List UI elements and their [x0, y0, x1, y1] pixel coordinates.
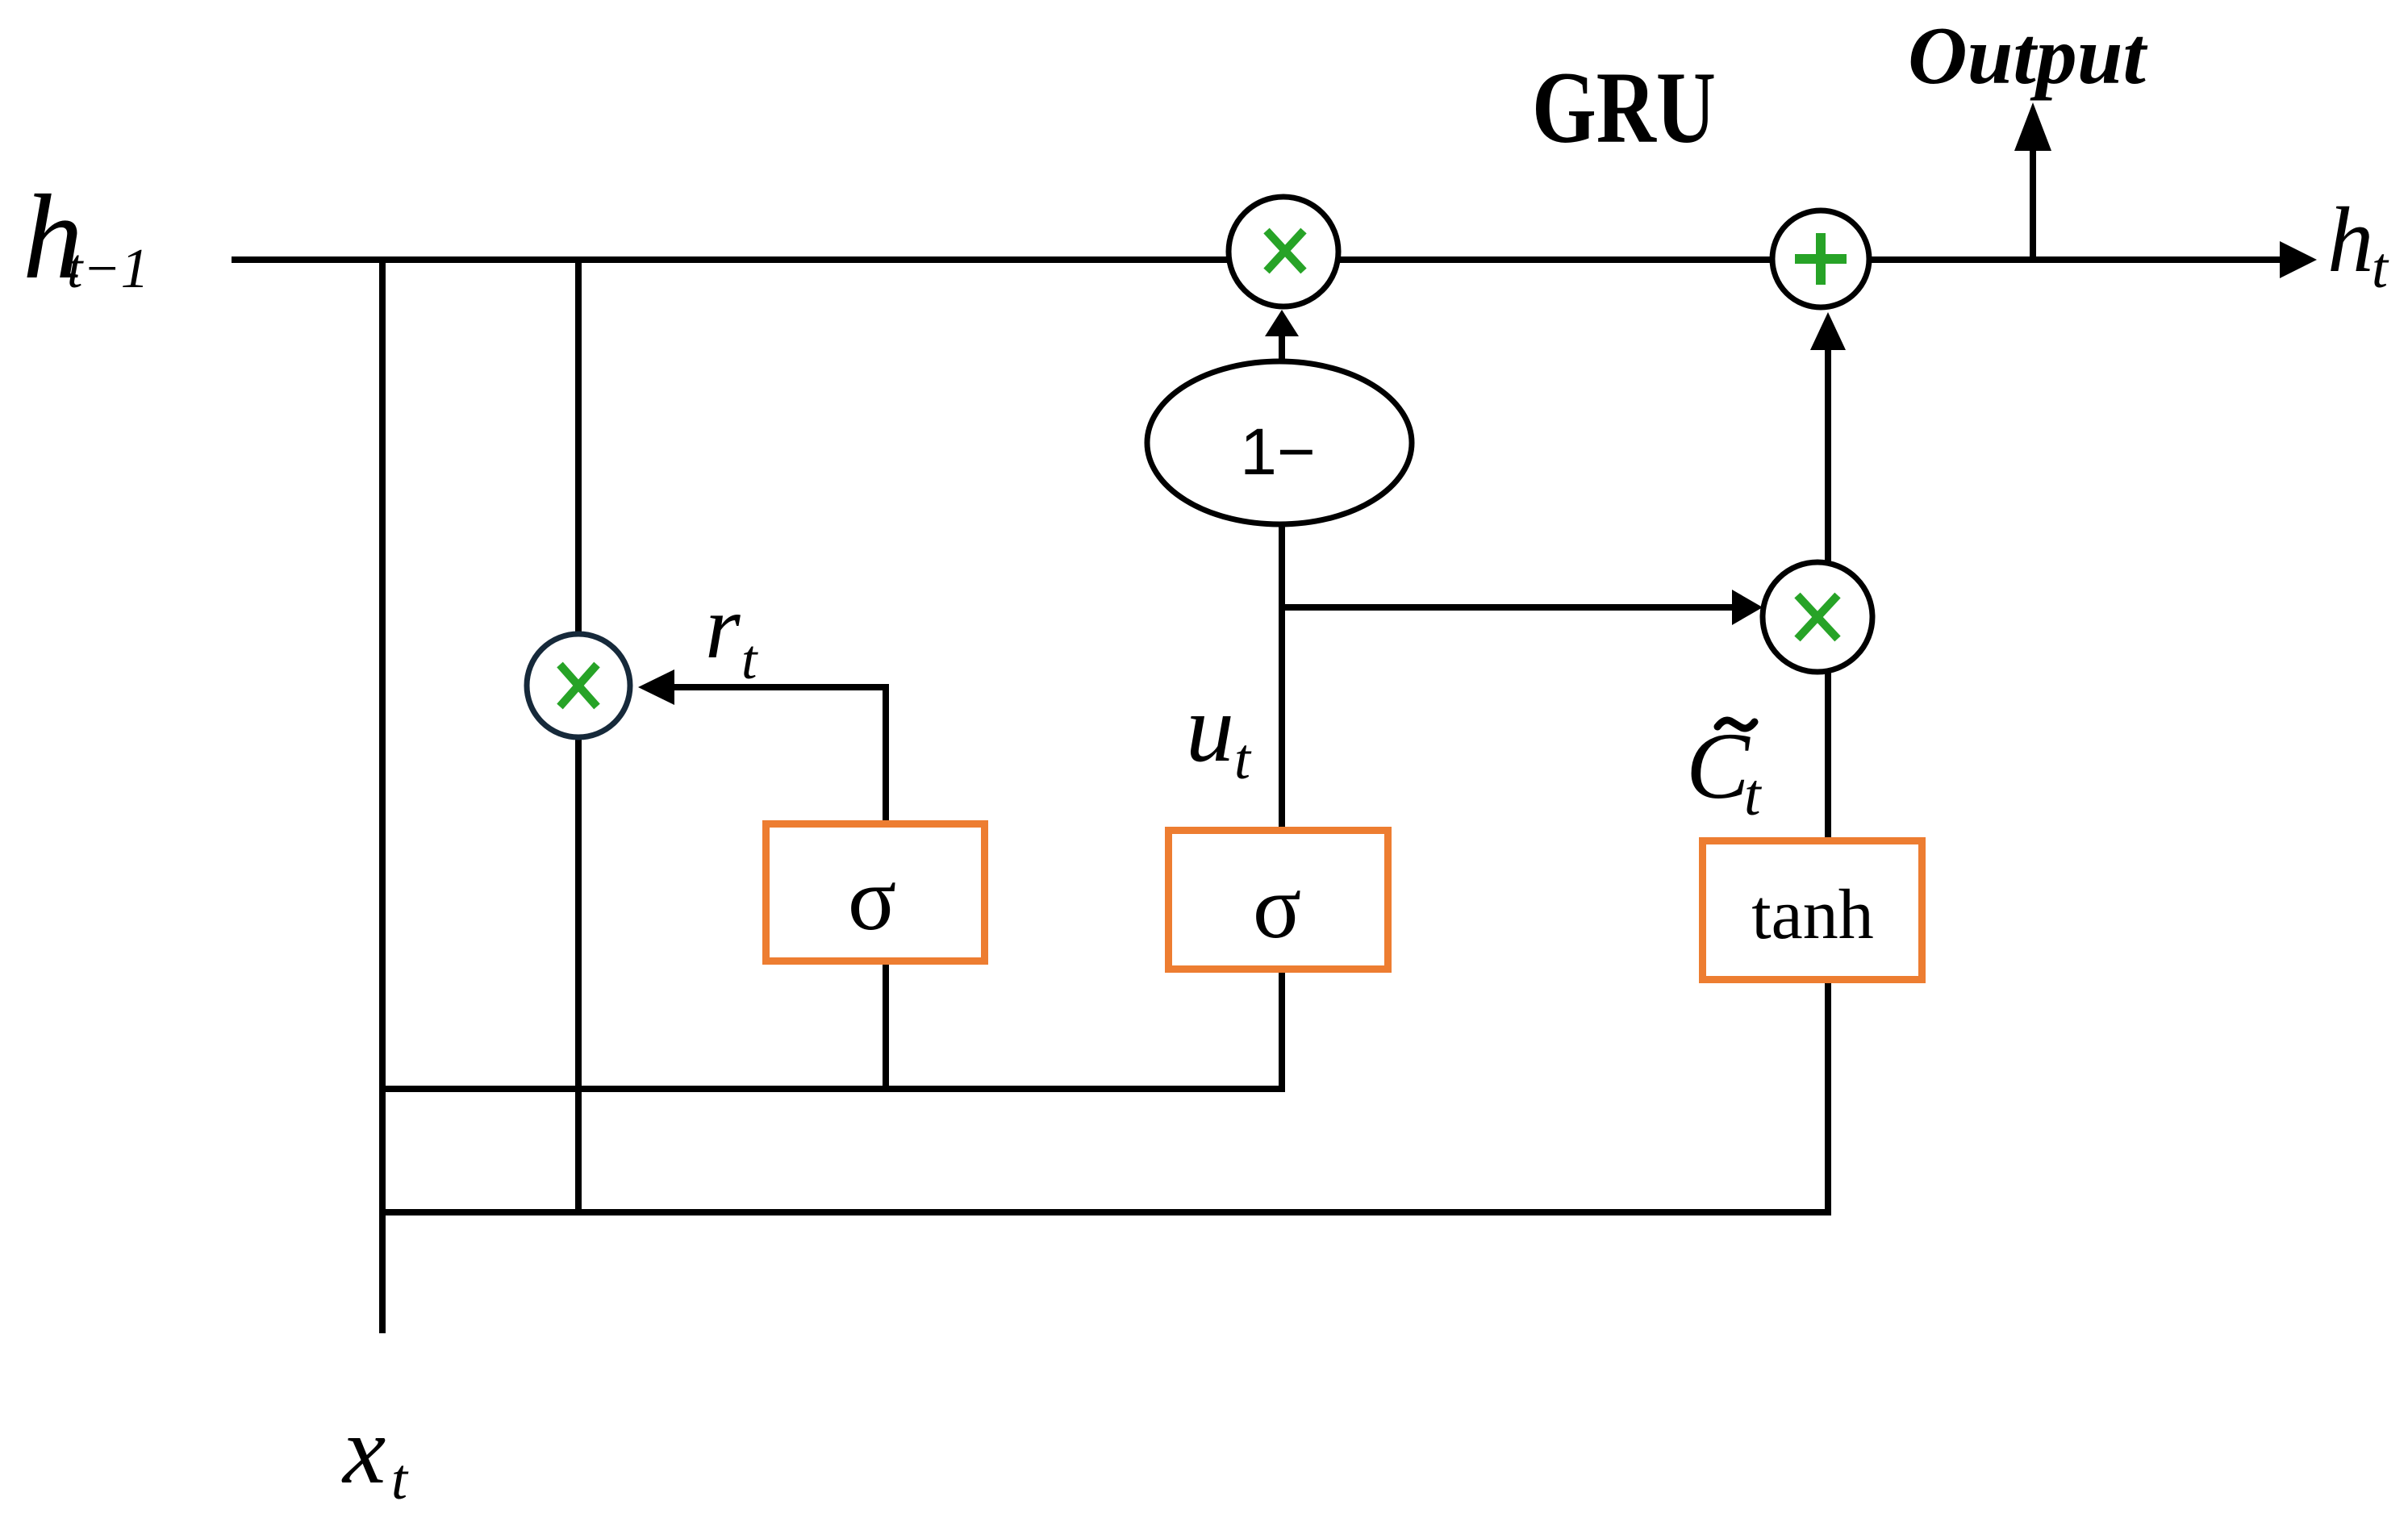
wire tanh output drop to lower bus	[1825, 980, 1831, 1216]
svg-text:t: t	[1234, 727, 1252, 791]
wire sigma2 output drop to upper bus	[1279, 969, 1285, 1092]
symbol green plus in adder	[1795, 233, 1847, 285]
svg-text:GRU: GRU	[1532, 52, 1716, 165]
node 1-minus ellipse	[1147, 361, 1412, 524]
wire sigma1 output drop to upper bus	[883, 961, 889, 1092]
wire r_t arrow line	[674, 684, 889, 690]
svg-text:σ: σ	[1253, 857, 1301, 957]
gate sigma2 box	[1169, 831, 1388, 969]
svg-text:t: t	[1744, 762, 1763, 828]
svg-text:t−1: t−1	[67, 238, 149, 300]
wire reset-path vertical (through reset multiplier)	[575, 256, 582, 1212]
wire Output arrow	[2030, 145, 2036, 260]
svg-text:t: t	[391, 1447, 409, 1512]
svg-text:1−: 1−	[1240, 415, 1316, 489]
svg-text:u: u	[1186, 674, 1234, 782]
arrowhead Output	[2014, 102, 2051, 151]
node candidate multiplier circle	[1763, 562, 1872, 672]
wire candidate branch to right multiplier	[1282, 604, 1732, 611]
svg-text:t: t	[2372, 236, 2389, 300]
svg-text:σ: σ	[848, 849, 896, 949]
svg-text:t: t	[741, 629, 758, 691]
svg-text:x: x	[341, 1396, 386, 1503]
svg-text:h: h	[2327, 189, 2374, 291]
wire lower input bus to tanh	[379, 1209, 1831, 1216]
svg-text:r: r	[705, 578, 741, 678]
wire sigma1 input drop from r_t corner	[883, 684, 889, 824]
wire update column: ellipse bottom to sigma2 top	[1279, 524, 1285, 830]
wire upper input bus to sigma gates	[379, 1086, 1285, 1092]
arrowhead into main multiplier	[1265, 310, 1299, 336]
node adder circle	[1772, 211, 1869, 307]
arrowhead h(t)	[2280, 241, 2317, 278]
symbol green x in reset multiplier	[560, 665, 597, 707]
svg-text:Output: Output	[1908, 10, 2147, 102]
wire right column down: tanh to candidate multiplier	[1825, 669, 1831, 840]
arrowhead into right multiplier	[1732, 590, 1763, 625]
gate tanh box	[1703, 841, 1922, 980]
wire arrow ellipse to main multiplier	[1279, 332, 1285, 362]
wire right column up: candidate multiplier to adder	[1825, 347, 1831, 565]
tilde above C	[1717, 720, 1755, 728]
wire x(t) input riser (vertical A)	[379, 256, 386, 1333]
symbol green x in main multiplier	[1267, 231, 1304, 271]
arrowhead into adder	[1810, 312, 1846, 350]
gate sigma1 box	[766, 824, 985, 961]
node main multiplier circle	[1229, 197, 1338, 306]
wire main h-line from h(t-1) to h(t)	[232, 256, 2280, 263]
node reset multiplier circle (navy)	[527, 634, 630, 737]
symbol green x in candidate multiplier	[1797, 595, 1838, 639]
svg-text:tanh: tanh	[1751, 876, 1874, 954]
arrowhead r_t into reset multiplier	[638, 669, 674, 705]
